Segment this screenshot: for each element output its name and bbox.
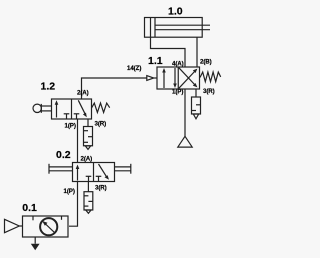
valve 0.2 left plunger actuator: [49, 164, 73, 174]
svg-text:3(R): 3(R): [203, 88, 215, 95]
valve 1.2 port label 2(A): [77, 90, 89, 97]
silencer at valve 1.2 port 3(R): [84, 127, 93, 150]
valve 1.1 left cell arrow down: [173, 68, 177, 88]
unit 0.1 regulator circle: [40, 218, 57, 235]
wire cylinder left port to valve 1.1 port 4(A): [151, 37, 186, 67]
wire cylinder right port to valve 1.1 port 2(B): [196, 37, 198, 67]
svg-text:1.2: 1.2: [41, 80, 56, 92]
wire valve 1.1 port 1(P) down to supply: [184, 89, 186, 136]
valve 1.2 right cell blocked port: [74, 114, 80, 119]
cylinder 1.0 piston rod: [155, 25, 210, 30]
valve 1.1 right cell crossed arrows: [179, 68, 198, 89]
wire valve 1.2 port 2(A) to pilot of valve 1.1: [82, 78, 147, 99]
unit 0.1 service unit body: [23, 216, 69, 237]
wire valve 1.2 port 3(R) to silencer: [87, 119, 89, 127]
svg-text:1(P): 1(P): [64, 188, 75, 195]
valve 1.1 pilot symbol 14(Z): [147, 76, 154, 81]
valve 1.2 right cell exhaust arrow: [78, 100, 87, 117]
cylinder 1.0 barrel: [145, 18, 203, 38]
svg-text:1.1: 1.1: [148, 55, 163, 67]
valve 1.1 body (4/2-way): [157, 67, 200, 89]
valve 1.1 port label 2(B): [200, 59, 212, 66]
valve 0.2 port label 2(A): [81, 155, 93, 162]
valve 1.2 return spring: [92, 103, 110, 112]
valve 1.1 port label 4(A): [172, 61, 184, 68]
valve 1.1 return spring: [200, 72, 221, 82]
valve 1.2 port label 3(R): [95, 120, 107, 127]
valve 0.2 left cell blocked port: [86, 176, 92, 181]
valve 1.1 port label 1(P): [172, 89, 183, 96]
valve 0.2 right plunger actuator: [115, 164, 131, 174]
wire valve 1.2 port 1(P) down to valve 0.2 port 2(A): [77, 119, 79, 163]
valve 1.1 pilot label 14(Z): [127, 65, 141, 72]
unit 0.1 drain arrow: [31, 237, 40, 250]
valve 1.1 port label 3(R): [203, 88, 215, 95]
svg-text:1(P): 1(P): [65, 123, 76, 130]
valve 1.1 left cell arrow up: [162, 68, 166, 88]
svg-text:3(R): 3(R): [95, 120, 107, 127]
valve 1.1 label: [148, 55, 163, 67]
compressed air source at unit 0.1: [5, 219, 23, 232]
silencer at valve 1.1 port 3(R): [192, 97, 201, 119]
cylinder 1.0 label: [168, 6, 183, 18]
svg-text:1.0: 1.0: [168, 6, 183, 18]
valve 1.2 roller actuator: [33, 104, 52, 113]
valve 1.2 body (3/2-way roller valve): [52, 99, 92, 119]
svg-text:2(A): 2(A): [77, 90, 89, 97]
unit 0.1 regulator arrow: [42, 221, 55, 233]
unit 0.1 label: [22, 202, 37, 214]
compressed air source under valve 1.1: [178, 136, 192, 147]
wire valve 1.1 port 3(R) to silencer: [195, 89, 197, 97]
svg-text:14(Z): 14(Z): [127, 65, 141, 72]
silencer at valve 0.2 port 3(R): [84, 192, 93, 214]
valve 1.2 label: [41, 80, 56, 92]
valve 1.2 port label 1(P): [65, 123, 76, 130]
valve 0.2 right cell exhaust arrow: [99, 164, 110, 180]
valve 0.2 body (3/2-way valve): [73, 163, 115, 182]
valve 0.2 port label 3(R): [95, 185, 107, 192]
svg-text:2(A): 2(A): [81, 155, 93, 162]
wire valve 0.2 port 3(R) to silencer: [87, 182, 89, 192]
cylinder 1.0 piston: [151, 18, 156, 38]
valve 1.2 left cell arrow up: [55, 100, 59, 117]
svg-text:2(B): 2(B): [200, 59, 212, 66]
valve 0.2 port label 1(P): [64, 188, 75, 195]
wire valve 0.2 port 1(P) down to unit 0.1 output: [69, 182, 78, 227]
svg-text:0.2: 0.2: [56, 149, 71, 161]
valve 1.2 left cell blocked port: [64, 114, 70, 119]
valve 0.2 label: [56, 149, 71, 161]
valve 0.2 right cell blocked port: [96, 176, 102, 181]
valve 0.2 left cell arrow up: [76, 165, 80, 181]
svg-text:3(R): 3(R): [95, 185, 107, 192]
svg-text:0.1: 0.1: [22, 202, 37, 214]
